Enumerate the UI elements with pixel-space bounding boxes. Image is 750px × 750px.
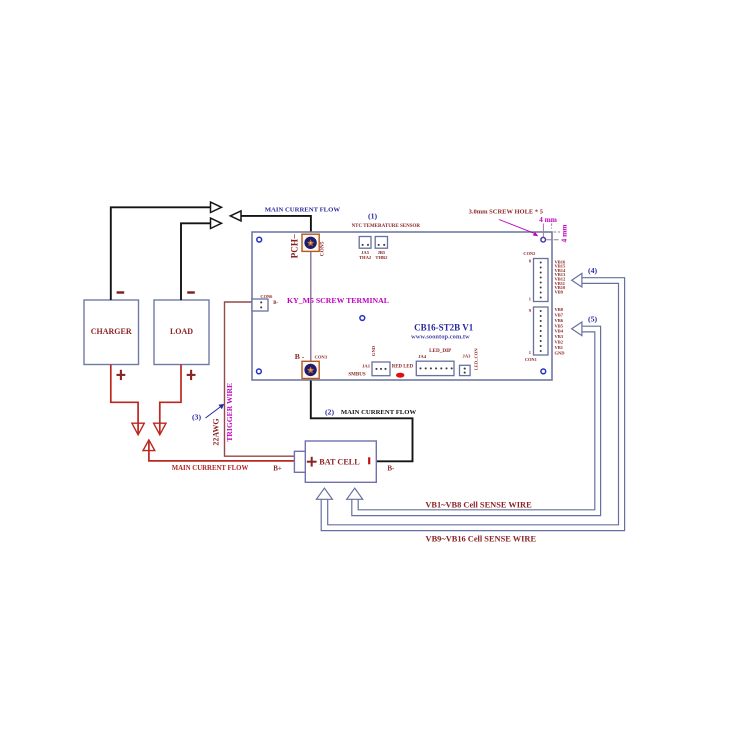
svg-text:3.0mm SCREW HOLE * 5: 3.0mm SCREW HOLE * 5 bbox=[469, 209, 544, 216]
label VB9~VB16 Cell SENSE WIRE bbox=[426, 534, 537, 543]
screw terminal B- CON3 bbox=[302, 361, 319, 378]
label (5) bbox=[588, 315, 597, 324]
wire charger negative to arrow bbox=[111, 207, 211, 300]
svg-text:MAIN CURRENT FLOW: MAIN CURRENT FLOW bbox=[341, 409, 417, 416]
label JA1 bbox=[362, 363, 371, 368]
label CON1 bbox=[525, 357, 537, 362]
arrowhead charger positive down bbox=[132, 423, 144, 435]
label pin 9 CON1 bbox=[529, 308, 532, 313]
label CB16-ST2B V1 bbox=[414, 322, 474, 332]
label (2) bbox=[325, 408, 334, 417]
label 4 mm horizontal bbox=[539, 215, 558, 224]
connector JA1 SMBUS bbox=[372, 362, 390, 376]
svg-text:4 mm: 4 mm bbox=[539, 215, 558, 224]
label pin 8 CON2 bbox=[529, 259, 532, 264]
PCB board outline bbox=[252, 232, 552, 380]
svg-text:VB8: VB8 bbox=[555, 307, 564, 312]
svg-text:(5): (5) bbox=[588, 315, 597, 324]
wire battery negative to PCB B- bbox=[311, 378, 413, 461]
sense wire VB1-VB8 inner bbox=[358, 332, 595, 510]
svg-text:MAIN CURRENT FLOW: MAIN CURRENT FLOW bbox=[265, 206, 341, 213]
label B - bbox=[295, 352, 305, 361]
svg-text:(2): (2) bbox=[325, 408, 334, 417]
dimension dashes right of corner bbox=[554, 231, 560, 233]
svg-text:GND: GND bbox=[371, 345, 376, 356]
svg-text:B -: B - bbox=[295, 352, 305, 361]
svg-text:(3): (3) bbox=[192, 413, 201, 422]
arrowhead from PCB left bbox=[230, 211, 241, 221]
label MAIN CURRENT FLOW mid black bbox=[341, 409, 417, 416]
svg-text:THB2: THB2 bbox=[375, 255, 388, 260]
connector JB5 bbox=[375, 237, 388, 261]
label (4) bbox=[588, 266, 597, 275]
label pin 1 CON1 bbox=[529, 350, 531, 355]
label LED_CON rotated bbox=[474, 348, 479, 371]
cell sense arrowhead left (VB9-VB16) bbox=[316, 488, 332, 499]
arrowhead load current right bbox=[211, 218, 222, 228]
sense wire VB9-VB16 outer bbox=[321, 278, 624, 531]
svg-text:B-: B- bbox=[387, 464, 395, 472]
label (1) bbox=[368, 212, 377, 221]
connector JA4 LED_DIP bbox=[416, 361, 454, 375]
load minus label bbox=[187, 291, 195, 293]
label NTC TEMERATURE SENSOR bbox=[352, 224, 421, 229]
wire load negative to arrow bbox=[181, 223, 211, 300]
svg-text:4 mm: 4 mm bbox=[559, 224, 568, 243]
label CON6 bbox=[260, 294, 273, 299]
labels VB8-VB1 GND bbox=[555, 307, 566, 355]
label BAT CELL bbox=[319, 458, 360, 467]
svg-text:GND: GND bbox=[555, 350, 566, 355]
mounting hole bottom-left bbox=[257, 369, 262, 374]
svg-text:CHARGER: CHARGER bbox=[91, 327, 132, 336]
label CON2 bbox=[523, 251, 535, 256]
screw terminal PCH- CON5 bbox=[302, 234, 319, 251]
sense wire VB1-VB8 outer bbox=[352, 326, 601, 515]
svg-text:VB9: VB9 bbox=[555, 289, 564, 294]
mounting hole center bbox=[360, 316, 365, 321]
charger minus label bbox=[117, 291, 125, 293]
wire charger positive down bbox=[111, 365, 138, 435]
arrowhead load positive down bbox=[154, 423, 166, 435]
svg-text:VB2: VB2 bbox=[555, 340, 564, 345]
trigger wire CON6 to battery positive bbox=[225, 302, 295, 456]
interconnect line PCH- to B- bbox=[310, 250, 312, 363]
label PCH- bbox=[289, 234, 299, 259]
battery plus symbol bbox=[307, 457, 317, 467]
svg-text:THA2: THA2 bbox=[359, 255, 372, 260]
label JA3 bbox=[463, 354, 472, 359]
label VB1~VB8 Cell SENSE WIRE bbox=[425, 500, 532, 509]
svg-text:VB5: VB5 bbox=[555, 323, 564, 328]
label B+ bbox=[273, 464, 282, 472]
label LED_DIP bbox=[429, 348, 452, 354]
wire PCB PCH- to left arrow bbox=[241, 216, 311, 235]
label JA4 bbox=[418, 354, 427, 359]
svg-text:VB1: VB1 bbox=[555, 345, 564, 350]
svg-text:B+: B+ bbox=[273, 464, 282, 472]
connector CON6 bbox=[252, 299, 268, 311]
label 4 mm vertical bbox=[559, 224, 568, 243]
mounting hole top-left bbox=[257, 237, 262, 242]
svg-text:RED LED: RED LED bbox=[392, 365, 414, 370]
label MAIN CURRENT FLOW bottom red bbox=[172, 465, 249, 472]
load box bbox=[154, 300, 209, 365]
svg-text:B-: B- bbox=[273, 301, 278, 306]
svg-text:JA1: JA1 bbox=[362, 363, 371, 368]
label CON3 bbox=[315, 354, 328, 359]
svg-text:PCH−: PCH− bbox=[289, 234, 299, 259]
svg-text:MAIN CURRENT FLOW: MAIN CURRENT FLOW bbox=[172, 465, 249, 472]
label TRIGGER WIRE bbox=[225, 383, 234, 442]
label RED LED bbox=[392, 365, 414, 370]
svg-text:JA3: JA3 bbox=[463, 354, 472, 359]
charger plus label bbox=[117, 370, 126, 380]
svg-text:CON6: CON6 bbox=[260, 294, 273, 299]
svg-text:VB7: VB7 bbox=[555, 313, 564, 318]
wire battery positive main current bbox=[149, 441, 295, 461]
svg-text:CON3: CON3 bbox=[315, 354, 328, 359]
svg-text:(1): (1) bbox=[368, 212, 377, 221]
svg-text:BAT CELL: BAT CELL bbox=[319, 458, 360, 467]
battery negative tick bbox=[368, 457, 370, 464]
svg-text:1: 1 bbox=[529, 350, 531, 355]
label 3.0mm SCREW HOLE * 5 bbox=[469, 209, 544, 216]
dimension tick below mm bbox=[551, 224, 553, 229]
label SMBUS bbox=[348, 372, 365, 377]
arrowhead (4) to CON2 bbox=[572, 273, 582, 287]
battery cell box bbox=[294, 441, 376, 482]
svg-text:KY_M5 SCREW TERMINAL: KY_M5 SCREW TERMINAL bbox=[287, 296, 389, 305]
svg-text:22AWG: 22AWG bbox=[211, 418, 220, 445]
sense wire VB9-VB16 inner bbox=[328, 283, 619, 524]
pointer arrow from (3) to trigger wire bbox=[206, 404, 225, 418]
connector CON1 bbox=[534, 307, 549, 355]
svg-text:CB16-ST2B V1: CB16-ST2B V1 bbox=[414, 322, 474, 332]
wire load positive down bbox=[160, 365, 181, 435]
label GND rotated bbox=[371, 345, 376, 356]
svg-text:www.soontop.com.tw: www.soontop.com.tw bbox=[411, 334, 470, 341]
label CON5 bbox=[320, 241, 326, 256]
svg-text:VB3: VB3 bbox=[555, 334, 564, 339]
svg-text:TRIGGER WIRE: TRIGGER WIRE bbox=[225, 383, 234, 442]
label pin 1 CON2 bbox=[529, 297, 531, 302]
dimension line vertical to hole bbox=[542, 224, 544, 237]
arrowhead charger current right bbox=[211, 202, 222, 212]
connector JA3 bbox=[460, 365, 471, 375]
label (3) bbox=[192, 413, 201, 422]
load plus label bbox=[187, 370, 196, 380]
svg-text:VB6: VB6 bbox=[555, 318, 564, 323]
svg-text:VB9~VB16 Cell SENSE WIRE: VB9~VB16 Cell SENSE WIRE bbox=[426, 534, 537, 543]
label www.soontop.com.tw bbox=[411, 334, 470, 341]
mounting hole bottom-right bbox=[541, 369, 546, 374]
label 22AWG bbox=[211, 418, 220, 445]
red LED bbox=[396, 373, 404, 378]
screw hole top-right bbox=[541, 237, 546, 242]
label B- at CON6 bbox=[273, 301, 278, 306]
svg-text:JA4: JA4 bbox=[418, 354, 427, 359]
svg-text:CON1: CON1 bbox=[525, 357, 537, 362]
svg-text:VB4: VB4 bbox=[555, 329, 564, 334]
label MAIN CURRENT FLOW top bbox=[265, 206, 341, 213]
svg-text:NTC TEMERATURE SENSOR: NTC TEMERATURE SENSOR bbox=[352, 224, 421, 229]
cell sense arrowhead right (VB1-VB8) bbox=[347, 488, 363, 499]
pointer arrow to screw hole bbox=[499, 220, 538, 237]
svg-text:CON2: CON2 bbox=[523, 251, 535, 256]
svg-text:CON5: CON5 bbox=[320, 241, 326, 256]
svg-text:LOAD: LOAD bbox=[170, 327, 193, 336]
arrowhead (5) to CON1 bbox=[572, 322, 582, 336]
svg-text:LED_CON: LED_CON bbox=[474, 348, 479, 371]
svg-text:(4): (4) bbox=[588, 266, 597, 275]
svg-text:1: 1 bbox=[529, 297, 531, 302]
svg-text:LED_DIP: LED_DIP bbox=[429, 348, 452, 354]
labels VB16-VB9 bbox=[555, 259, 567, 294]
svg-text:SMBUS: SMBUS bbox=[348, 372, 365, 377]
dimension line from hole right bbox=[546, 239, 560, 241]
label KY_M5 SCREW TERMINAL bbox=[287, 296, 389, 305]
charger box bbox=[84, 300, 139, 365]
arrowhead battery positive up bbox=[143, 440, 155, 451]
connector CON2 bbox=[534, 259, 549, 302]
svg-text:VB1~VB8 Cell SENSE WIRE: VB1~VB8 Cell SENSE WIRE bbox=[425, 500, 532, 509]
label B- battery bbox=[387, 464, 395, 472]
connector JA5 bbox=[359, 237, 372, 261]
